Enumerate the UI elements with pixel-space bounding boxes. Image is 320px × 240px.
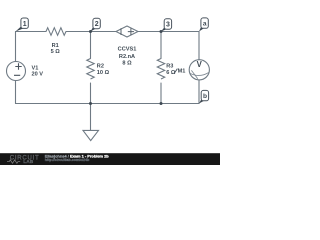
svg-text:a: a xyxy=(203,21,207,28)
svg-text:b: b xyxy=(203,93,207,100)
svg-text:10 Ω: 10 Ω xyxy=(97,70,110,76)
svg-text:R2: R2 xyxy=(97,64,104,70)
svg-text:2: 2 xyxy=(95,21,99,28)
svg-text:LAB: LAB xyxy=(23,159,33,165)
svg-text:V1: V1 xyxy=(32,65,39,71)
node a xyxy=(199,18,208,32)
resistor R2 xyxy=(87,59,94,80)
svg-text:http://circuitlab.com/c/24b: http://circuitlab.com/c/24b xyxy=(45,158,90,162)
wire voltmeter branch upper xyxy=(198,32,200,60)
svg-text:R2.nA: R2.nA xyxy=(119,54,135,60)
node b xyxy=(199,90,209,103)
wire CCVS1 to node a xyxy=(138,31,199,33)
svg-text:R3: R3 xyxy=(166,63,173,69)
footer logo zigzag xyxy=(7,160,20,163)
svg-text:V: V xyxy=(197,60,203,69)
svg-text:1: 1 xyxy=(23,21,27,28)
ground xyxy=(83,130,99,140)
junction node2 xyxy=(89,30,92,33)
svg-text:R1: R1 xyxy=(52,43,59,49)
wire R1 to CCVS1 xyxy=(66,31,116,33)
node 3 xyxy=(161,19,172,32)
wire R3 branch upper xyxy=(160,32,162,59)
wire bottom xyxy=(16,103,200,105)
svg-text:8 Ω: 8 Ω xyxy=(122,60,132,66)
wire voltmeter branch lower xyxy=(198,80,200,104)
svg-text:M1: M1 xyxy=(178,68,186,74)
svg-text:20 V: 20 V xyxy=(32,72,44,78)
node 2 xyxy=(91,18,101,31)
wire R3 branch lower xyxy=(160,83,162,104)
voltage source V1 xyxy=(7,62,26,81)
wire R2 branch upper xyxy=(90,32,92,59)
wire R2 branch lower xyxy=(90,83,92,104)
junction bottom R3 xyxy=(160,102,163,105)
wire ground stem xyxy=(90,104,92,131)
wire top-left segment xyxy=(16,31,47,33)
wire left branch lower xyxy=(15,80,17,103)
svg-text:5 Ω: 5 Ω xyxy=(51,49,61,55)
junction node3 xyxy=(160,30,163,33)
node 1 xyxy=(16,18,29,32)
CCVS U1 (diamond source CCVS1) xyxy=(116,26,138,37)
resistor R3 xyxy=(157,59,164,80)
resistor R1 xyxy=(46,28,66,36)
junction bottom R2/ground xyxy=(89,102,92,105)
voltmeter M1 xyxy=(189,60,209,80)
svg-text:3: 3 xyxy=(166,22,170,29)
footer bar xyxy=(0,153,220,165)
svg-text:CCVS1: CCVS1 xyxy=(118,47,137,53)
wire left branch upper xyxy=(15,32,17,62)
